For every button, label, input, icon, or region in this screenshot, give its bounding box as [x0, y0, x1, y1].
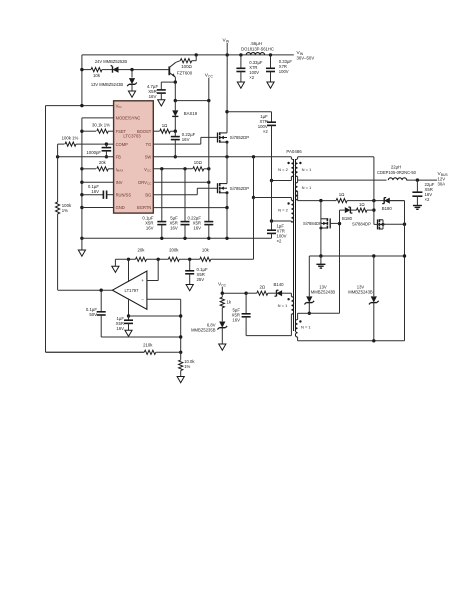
svg-text:1000pF: 1000pF	[86, 150, 101, 155]
resistor 10.0k 1%	[180, 352, 182, 360]
inductor L1 .56uH DO1813P	[246, 53, 264, 55]
wire FB-COMP vertical	[57, 144, 59, 202]
node w2 phase dot	[287, 202, 289, 204]
node sec gnd left fet	[319, 254, 322, 257]
resistor 1 ohm gate	[356, 208, 367, 212]
svg-text:N = 1: N = 1	[278, 303, 288, 308]
svg-text:N = 1: N = 1	[302, 185, 312, 190]
wire w2 pri bottom exit	[290, 221, 292, 222]
wire VIN column to drain	[226, 55, 228, 133]
svg-text:IMAX: IMAX	[116, 167, 124, 173]
wire BG	[153, 194, 197, 196]
svg-text:200k: 200k	[169, 247, 179, 252]
winding primary N=2 upper	[291, 159, 293, 177]
svg-text:−: −	[141, 297, 144, 302]
node VIN row / left rail	[80, 104, 83, 107]
wire FB row	[58, 156, 114, 158]
ground vbus chassis	[413, 205, 422, 207]
svg-text:B140: B140	[273, 282, 284, 287]
svg-text:100Ω: 100Ω	[181, 64, 192, 69]
wire w3 bottom exit	[290, 314, 292, 335]
node FB row left	[56, 155, 59, 158]
svg-text:16V: 16V	[146, 225, 154, 230]
capacitor 5uF X5R 16V	[183, 167, 186, 170]
node gate drive mid	[372, 208, 375, 211]
svg-text:B180: B180	[342, 216, 353, 221]
svg-text:VCC: VCC	[218, 282, 227, 288]
zener D8 13V MMBZ5243B right	[373, 256, 375, 296]
wire output row	[58, 289, 113, 291]
svg-text:Si7852DP: Si7852DP	[230, 135, 249, 140]
ground 1uF opamp	[125, 330, 132, 336]
svg-text:MODE/SYNC: MODE/SYNC	[116, 116, 141, 121]
svg-text:FB: FB	[116, 155, 122, 160]
wire left rail to 210k	[45, 106, 47, 353]
svg-text:30.1k 1%: 30.1k 1%	[92, 123, 110, 128]
capacitor 0.1uF X5R 25V	[189, 259, 191, 271]
resistor 1 ohm boost	[153, 130, 159, 132]
wire fb sense row	[115, 258, 135, 260]
capacitor 22uF X5R 16V x2	[416, 180, 418, 192]
node zener row left	[80, 68, 83, 71]
wire zener1 to gate column	[309, 312, 339, 314]
capacitor 0.33uF x2	[239, 53, 242, 56]
svg-text:FZT600: FZT600	[177, 71, 193, 76]
svg-text:BG: BG	[145, 192, 151, 197]
svg-text:BGRTN: BGRTN	[137, 205, 151, 210]
wire VCC pin row	[153, 168, 192, 170]
wire TG	[153, 143, 201, 145]
capacitor 4.7uF	[161, 81, 175, 83]
svg-text:MMBZ5243B: MMBZ5243B	[311, 290, 336, 295]
node w1 phase dot	[287, 162, 289, 164]
ground 13V zener	[128, 91, 135, 97]
wire GND row	[80, 206, 83, 209]
wire left fet bar	[320, 201, 322, 256]
svg-text:×2: ×2	[277, 239, 283, 244]
wire +in stub	[147, 280, 158, 282]
transistor Q3 Si7852DP bottom	[217, 183, 219, 193]
wire VCC rail top	[208, 78, 210, 101]
node 0.1uF 25V tie	[188, 258, 191, 261]
svg-text:1%: 1%	[184, 364, 190, 369]
resistor 1 ohm sec	[336, 199, 347, 203]
svg-text:16V: 16V	[232, 318, 240, 323]
wire VCC rail mid	[208, 101, 210, 183]
node SW sense column	[252, 155, 255, 158]
svg-text:VIN: VIN	[223, 38, 230, 44]
wire w1 pri bottom exit	[290, 177, 292, 181]
wire Q2 source	[226, 142, 228, 157]
node top rail / FZT600 collector	[195, 53, 198, 56]
capacitor 1uF X7R 100V x2 lower	[267, 229, 276, 231]
resistor 10 ohm	[193, 167, 204, 171]
ground 0.33uF x2	[237, 82, 244, 88]
svg-text:N = 2: N = 2	[278, 208, 288, 213]
zener D10 6.8V MMBZ5235B	[219, 322, 225, 328]
svg-text:×2: ×2	[425, 197, 431, 202]
svg-text:N = 1: N = 1	[301, 325, 311, 330]
resistor 100&#937;	[195, 55, 197, 61]
wire w4 bottom exit	[297, 337, 299, 341]
transistor Q5 Si7884DP right	[377, 219, 379, 229]
resistor 100k 1% vert	[56, 202, 60, 214]
wire sec gnd line	[309, 255, 404, 257]
winding primary N=2 lower	[291, 200, 293, 222]
ground fb left	[114, 259, 116, 266]
svg-text:10Ω: 10Ω	[194, 160, 203, 165]
wire V- row	[129, 315, 181, 317]
node rect left drain	[319, 199, 322, 202]
svg-text:1Ω: 1Ω	[162, 123, 168, 128]
svg-text:1Ω: 1Ω	[339, 192, 345, 197]
wire VIN row	[46, 105, 114, 107]
wire sense column	[253, 157, 255, 198]
svg-text:RUN/SS: RUN/SS	[116, 192, 132, 197]
wire V+ stub	[128, 259, 130, 281]
svg-text:50V: 50V	[89, 312, 97, 317]
svg-text:N = 1: N = 1	[302, 167, 312, 172]
wire mid tap	[297, 177, 299, 183]
ground 10.0k	[177, 377, 184, 383]
wire -in stub	[147, 298, 181, 300]
resistor 200k	[168, 257, 179, 261]
node vcc aux	[221, 292, 224, 295]
wire w1 pri top entry	[290, 157, 292, 159]
winding secondary N=1 second	[295, 182, 297, 200]
winding aux N=1 third	[291, 297, 293, 315]
svg-text:10k: 10k	[202, 247, 210, 252]
wire primary cap top line	[227, 111, 272, 113]
capacitor 1uF X5R 16V opamp	[128, 316, 130, 320]
node w1s phase dot	[299, 162, 301, 164]
node gate drive top	[372, 199, 375, 202]
ground main rail	[81, 238, 83, 250]
resistor 10k fb	[200, 257, 211, 261]
wire w1 sec top exit	[297, 157, 299, 159]
capacitor 5uF X5R 16V aux	[245, 293, 247, 314]
resistor 20k fb	[136, 257, 147, 261]
svg-text:25V: 25V	[197, 277, 205, 282]
winding secondary N=1 fourth	[295, 320, 297, 338]
wire MODE/SYNC to gnd rail	[82, 117, 114, 119]
svg-text:.56µH: .56µH	[250, 41, 262, 46]
svg-text:36V–50V: 36V–50V	[297, 56, 315, 61]
node w1 exit	[270, 179, 273, 182]
ground 0.33uF	[267, 82, 274, 88]
svg-text:BAS19: BAS19	[184, 111, 198, 116]
wire w3 top entry	[290, 293, 292, 296]
wire 0.1uF50V to -in	[101, 336, 181, 338]
resistor 20k Imax	[80, 167, 83, 170]
capacitor 0.1uF 16V run/ss	[80, 193, 83, 196]
svg-text:DO1813P-561HC: DO1813P-561HC	[241, 47, 274, 52]
node emitter/4.7uF	[174, 80, 177, 83]
wire Q3 source to BGRTN	[226, 193, 228, 239]
node SW FET source	[225, 155, 228, 158]
svg-text:VCC: VCC	[205, 73, 214, 79]
capacitor 1000pF	[105, 142, 108, 145]
node sec gnd zener2	[372, 254, 375, 257]
ground 4.7uF	[158, 100, 165, 106]
svg-text:GND: GND	[116, 205, 125, 210]
svg-text:CDEP105-0R2NC-50: CDEP105-0R2NC-50	[377, 170, 417, 175]
svg-text:TG: TG	[146, 142, 152, 147]
svg-text:LT1797: LT1797	[125, 288, 140, 293]
wire 210k right	[156, 351, 181, 353]
wire blocking cap column	[271, 125, 273, 230]
winding secondary N=1 first	[295, 159, 297, 177]
wire left VIN-feed drop	[81, 55, 83, 106]
node VCC tie left	[174, 99, 177, 102]
node V- cap tie	[127, 314, 130, 317]
wire top VIN rail	[82, 54, 294, 56]
svg-text:Si7884DP: Si7884DP	[352, 222, 371, 227]
capacitor 0.22uF 16V boost	[174, 131, 176, 136]
svg-text:2Ω: 2Ω	[259, 284, 265, 289]
resistor 210k	[144, 350, 156, 354]
transistor Q4 Si7884DP left	[329, 218, 331, 228]
svg-text:1%: 1%	[62, 208, 68, 213]
wire V- stub	[128, 300, 130, 316]
svg-text:MMBZ5243B: MMBZ5243B	[348, 290, 373, 295]
wire right rail	[404, 201, 406, 341]
svg-text:+: +	[141, 278, 144, 283]
svg-text:20k: 20k	[138, 247, 146, 252]
svg-text:Si7884DP: Si7884DP	[303, 221, 322, 226]
node w3 phase dot	[287, 298, 289, 300]
node left gate tie	[338, 222, 341, 225]
diode D5 B180 right	[384, 198, 390, 204]
svg-text:16V: 16V	[182, 137, 190, 142]
wire BGRTN row	[153, 207, 227, 209]
svg-text:DRVCC: DRVCC	[138, 180, 152, 186]
capacitor 0.1uF X5R 16V vcc	[160, 167, 163, 170]
svg-text:N = 2: N = 2	[278, 167, 288, 172]
zener D7 13V MMBZ5243B left	[308, 256, 310, 296]
node -in 210k	[179, 351, 182, 354]
transistor Q1 FZT600	[168, 66, 170, 75]
node q3 source gnd	[225, 237, 228, 240]
wire w4 top entry	[298, 312, 310, 314]
node +in tie	[157, 258, 160, 261]
node w2 exit	[270, 219, 273, 222]
resistor 2 ohm	[257, 291, 268, 295]
svg-text:30A: 30A	[438, 182, 446, 187]
wire left gate column	[339, 210, 341, 313]
zener D2 24V MMBZ5252B	[82, 69, 91, 71]
capacitor 0.33uF	[269, 53, 272, 56]
ground 0.1uF 25V	[186, 285, 193, 291]
capacitor 0.22uF X5R 16V	[208, 182, 210, 221]
node primary cap tap	[225, 110, 228, 113]
wire ground bus under IC	[82, 237, 272, 239]
diode D6 B180 left	[340, 209, 345, 211]
op-amp U1 LTC3703 body	[114, 101, 154, 213]
node output 0.1uF 50V	[100, 289, 103, 292]
svg-text:210k: 210k	[143, 342, 153, 347]
node zener row right	[130, 68, 133, 71]
svg-text:×2: ×2	[263, 129, 269, 134]
svg-text:16V: 16V	[149, 94, 157, 99]
node vbus cap	[416, 178, 419, 181]
svg-text:B180: B180	[382, 206, 393, 211]
node opamp V+ tie	[127, 258, 130, 261]
ground sec chassis	[320, 256, 322, 264]
svg-text:LTC3703: LTC3703	[123, 133, 141, 138]
wire SW row	[153, 156, 291, 158]
wire VCC tie	[175, 100, 209, 102]
wire 210k left	[46, 351, 145, 353]
wire w2 sec bottom exit	[297, 191, 299, 200]
svg-text:16V: 16V	[170, 225, 178, 230]
svg-text:VIN: VIN	[116, 103, 122, 109]
svg-text:100k 1%: 100k 1%	[62, 135, 79, 140]
wire right fet bar	[382, 220, 384, 229]
resistor 30.1k 1%	[80, 130, 83, 133]
wire DRVCC row	[153, 181, 209, 183]
zener D3 13V MMBZ5243B	[131, 70, 133, 78]
node zener1 bottom	[308, 312, 311, 315]
svg-text:20k: 20k	[99, 160, 107, 165]
node w4 phase dot	[299, 320, 301, 322]
resistor 100k 1% horiz	[58, 143, 65, 145]
wire sec top drop	[373, 157, 375, 225]
diode D4 BAS19	[174, 101, 176, 111]
wire right fet source out	[383, 223, 405, 225]
wire emitter column	[174, 82, 176, 101]
wire w2 pri top entry	[254, 197, 292, 199]
diode D9 B140	[277, 290, 283, 296]
node VCC tie right	[207, 99, 210, 102]
wire Q3 drain to SW	[226, 157, 228, 184]
svg-text:16V: 16V	[116, 326, 124, 331]
wire 2ohm line	[222, 292, 246, 294]
transistor Q2 Si7852DP top	[217, 133, 219, 143]
svg-text:INV: INV	[116, 180, 123, 185]
svg-text:VCC: VCC	[144, 167, 152, 173]
svg-text:SW: SW	[145, 155, 152, 160]
svg-text:100V: 100V	[279, 69, 289, 74]
transformer T1 core	[293, 159, 295, 331]
inductor L2 22uH	[388, 178, 406, 180]
svg-text:Si7852DP: Si7852DP	[230, 186, 249, 191]
svg-text:×2: ×2	[249, 75, 254, 80]
svg-text:1Ω: 1Ω	[359, 202, 365, 207]
node zener2 bottom	[372, 339, 375, 342]
svg-text:22µH: 22µH	[391, 165, 401, 170]
wire INV row	[80, 181, 83, 184]
op-amp U2 LT1797	[112, 271, 146, 309]
svg-text:24V MMBZ5252B: 24V MMBZ5252B	[95, 59, 128, 64]
svg-text:MMBZ5235B: MMBZ5235B	[191, 328, 216, 333]
node top rail / VIN column	[226, 53, 229, 56]
svg-text:13V MMBZ5243B: 13V MMBZ5243B	[91, 82, 124, 87]
ground 6.8V zener	[219, 344, 226, 350]
capacitor 0.1uF 50V	[100, 290, 102, 312]
svg-text:10k: 10k	[93, 73, 101, 78]
capacitor 1uF X7R 100V x2 upper	[267, 121, 276, 123]
svg-text:16V: 16V	[193, 225, 201, 230]
svg-text:PA0486: PA0486	[286, 149, 302, 154]
node gnd rail bottom	[80, 237, 83, 240]
svg-text:16V: 16V	[91, 189, 99, 194]
svg-text:COMP: COMP	[116, 142, 129, 147]
resistor 1k	[221, 293, 223, 297]
